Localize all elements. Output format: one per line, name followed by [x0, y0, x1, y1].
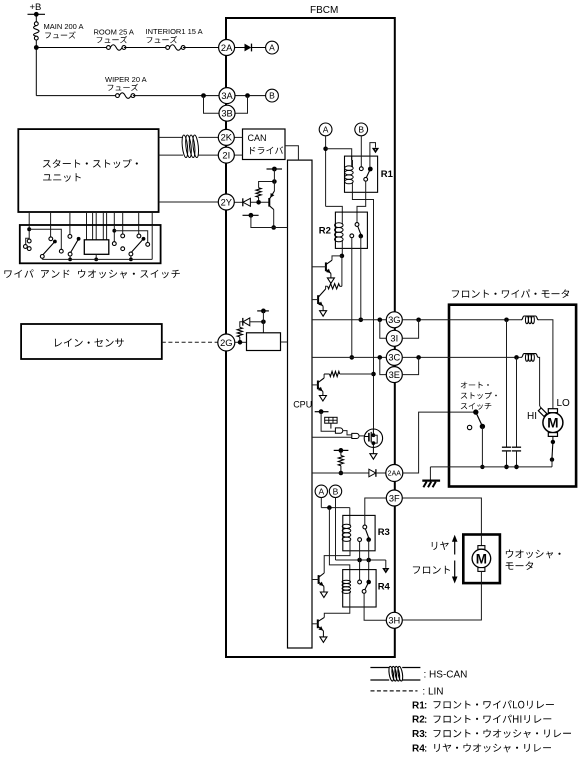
svg-text:: LIN: : LIN: [422, 687, 443, 698]
wire A to R1 coil: [326, 149, 352, 166]
resistor 2AA pullup: [340, 450, 342, 455]
wire 2K to CAN driver: [234, 136, 242, 138]
wire B to R1 contact: [360, 136, 362, 167]
wire 3F to R3 contact: [365, 498, 387, 525]
ground Q6: [320, 637, 327, 643]
svg-text:B: B: [358, 124, 364, 134]
wire unit to 2Y: [159, 201, 219, 203]
LO terminal: [548, 409, 557, 413]
wire 3G-3I outer loop: [402, 320, 418, 339]
node B bottom: [329, 485, 341, 497]
node B mid: [355, 123, 368, 136]
wire R3 coil to driver Q5: [324, 541, 350, 573]
svg-text:3I: 3I: [390, 334, 398, 344]
wire unit to twisted pair top: [159, 136, 183, 138]
switch pole4: [113, 225, 115, 242]
wire R2 coil to drivers: [341, 242, 343, 256]
svg-text:FBCM: FBCM: [310, 5, 338, 16]
connector 3E: [386, 367, 402, 383]
resistor R2 base chain: [341, 256, 343, 286]
wire WIPER fuse to 3A: [133, 95, 219, 97]
wire to ROOM fuse: [36, 47, 109, 49]
oscillator block: [325, 417, 337, 423]
svg-text:A: A: [269, 43, 275, 53]
relay R2 box: [335, 212, 367, 248]
connector 3F: [386, 490, 402, 506]
wire A to R2 coil: [326, 206, 343, 222]
choke coil L1: [521, 316, 538, 320]
svg-text:INTERIOR1 15 A: INTERIOR1 15 A: [146, 27, 203, 36]
wire R1 contact to R2 contact: [357, 181, 366, 223]
svg-text:R2: R2: [319, 226, 331, 237]
ground Q2: [320, 311, 327, 317]
wire 3A to node B: [235, 95, 266, 97]
wire A to R3 coil: [320, 498, 322, 508]
wire 3C into motor: [402, 356, 521, 358]
wire 3A-3B outer loop: [204, 96, 220, 114]
wire CPU to 2AA diode: [312, 472, 369, 474]
2G input network: [235, 341, 247, 343]
legend LIN symbol: [371, 690, 418, 692]
connector 3I: [386, 330, 402, 346]
rear label + arrow: [432, 542, 449, 550]
park switch: [552, 436, 554, 440]
power tick 2Y: [267, 168, 283, 170]
wire 2Y to diode: [234, 201, 243, 203]
wire 3A-3B inner loop: [235, 96, 248, 114]
wire +B down: [35, 14, 37, 21]
wire twisted pair to 2I: [199, 154, 219, 156]
connector 2G: [218, 334, 235, 351]
front label + arrow: [413, 566, 450, 574]
connector 2Y: [218, 194, 234, 210]
node B top: [266, 89, 279, 102]
svg-text:+B: +B: [30, 2, 42, 13]
wire R1 coil down to MOSFET drain line: [352, 184, 373, 429]
wiper motor M: [543, 413, 563, 433]
svg-text:3G: 3G: [388, 315, 400, 325]
fuse MAIN 200A: [34, 22, 38, 26]
resistor 2G pullup: [237, 327, 242, 337]
transistor Q6 R4 driver: [317, 619, 319, 628]
switch contacts pole1: [28, 225, 30, 239]
wire G2 to MOSFET gate: [359, 435, 364, 437]
svg-text:M: M: [547, 416, 558, 431]
svg-text:2A: 2A: [221, 43, 233, 53]
wire B down to contact rail: [335, 498, 337, 561]
front wiper motor box: [449, 305, 576, 487]
wire A down: [325, 136, 327, 207]
fuse ROOM 25A: [107, 46, 111, 50]
connector 2K: [218, 129, 234, 145]
capacitor C2: [516, 357, 518, 447]
svg-text:R3: R3: [412, 729, 425, 740]
connector 3C: [386, 349, 402, 365]
MOSFET Q4: [364, 429, 382, 447]
transistor Q1 R2 driver: [325, 262, 327, 271]
transistor Q 2Y (PNP): [268, 198, 270, 207]
fuse INTERIOR1 15A: [166, 46, 170, 50]
svg-text:R1: R1: [381, 169, 394, 180]
svg-text:HI: HI: [527, 411, 537, 422]
wire CPU to 3C: [312, 356, 386, 358]
arrow out right of R3/R4: [385, 560, 387, 568]
washer motor label: [506, 550, 561, 559]
ground symbol: [429, 467, 431, 480]
svg-text:3E: 3E: [389, 370, 400, 380]
power tick 2Y collector rail: [243, 214, 259, 216]
wires unit to wiper washer switch: [28, 212, 30, 225]
wire ROOM to INTERIOR fuse: [124, 47, 168, 49]
relay R4 box: [343, 570, 376, 607]
wire junction to WIPER fuse: [36, 95, 117, 97]
wire R4 contact to 3H: [364, 593, 386, 620]
wire L1 to LO: [538, 320, 553, 409]
relay R2 contacts: [355, 223, 359, 227]
svg-text:A: A: [323, 124, 329, 134]
connector 2AA: [386, 465, 403, 482]
svg-text:2G: 2G: [220, 338, 232, 348]
ground Q3: [319, 396, 326, 402]
connector 3B: [219, 105, 235, 121]
svg-text:R2: R2: [412, 715, 425, 726]
svg-text:R1: R1: [412, 700, 425, 711]
wire L2 to HI: [538, 357, 542, 409]
power tick logic: [315, 411, 329, 413]
wire R4 coil to driver Q6: [324, 593, 350, 617]
wire 3C-3E inner loop: [380, 357, 387, 374]
transistor Q3 HI driver: [317, 381, 319, 390]
svg-text:3H: 3H: [388, 616, 400, 626]
washer motor M: [480, 535, 482, 546]
ground MOSFET: [370, 454, 377, 460]
connector 2A: [219, 40, 235, 56]
HI terminal: [538, 408, 546, 416]
svg-text:MAIN 200 A: MAIN 200 A: [44, 22, 84, 31]
transistor Q2 R2 driver: [317, 295, 319, 304]
wire 2AA to auto-stop switch: [403, 412, 476, 473]
svg-text:CPU: CPU: [293, 400, 312, 410]
svg-text:2K: 2K: [221, 133, 233, 143]
svg-text:R4: R4: [412, 744, 425, 755]
wire diode to node A: [252, 47, 266, 49]
wiper and washer switch box: [20, 225, 161, 263]
wire contacts to R4 contacts: [359, 560, 361, 580]
wire 3G into motor: [402, 319, 521, 321]
power tick 2AA: [334, 449, 349, 451]
wire CPU to 3G: [312, 319, 386, 321]
wire G1 to G2: [343, 431, 352, 435]
diode 2G (cathode left): [242, 318, 244, 326]
fuse WIPER 20A: [116, 94, 120, 98]
switch pole6: [138, 225, 140, 234]
wire LIN box to CPU: [281, 341, 288, 343]
wire to 2A: [183, 47, 219, 49]
svg-text:B: B: [333, 486, 339, 496]
power tick 2G: [257, 310, 269, 312]
relay R3 contacts: [363, 525, 367, 529]
node A mid: [319, 123, 332, 136]
choke coil L2: [521, 354, 538, 358]
LIN dashed wire to 2G: [162, 341, 218, 343]
ground Q5: [320, 592, 327, 598]
wire washer motor to 3H: [402, 583, 481, 620]
svg-text:CAN: CAN: [248, 133, 267, 143]
motor ground rail: [430, 466, 552, 468]
connector 3A: [219, 88, 235, 104]
resistor Q3 collector to R1 line: [324, 373, 329, 375]
wire 3G-3I inner loop: [380, 320, 387, 339]
relay R4 coil: [349, 580, 351, 582]
wire CPU to G2: [312, 436, 352, 438]
rain sensor box: [21, 324, 162, 359]
connector 3H: [386, 612, 402, 628]
wire A to R4 coil: [329, 508, 349, 581]
svg-text:3A: 3A: [221, 91, 233, 101]
svg-text:2AA: 2AA: [388, 471, 402, 478]
relay R3 box: [343, 515, 375, 550]
svg-text:3F: 3F: [389, 493, 400, 503]
capacitor C1: [506, 320, 508, 447]
svg-text:2Y: 2Y: [221, 197, 232, 207]
node A bottom: [315, 485, 327, 497]
switch label: [4, 269, 180, 278]
motor bottom terminal: [548, 433, 557, 437]
svg-text:3B: 3B: [221, 109, 232, 119]
logic gate G2: [352, 433, 359, 438]
svg-text:2I: 2I: [222, 150, 230, 160]
svg-text:: HS-CAN: : HS-CAN: [424, 670, 468, 681]
wire R2 arm to 3G row: [360, 236, 362, 320]
wire MAIN fuse to junction: [35, 40, 37, 96]
diode 2AA (open, cathode right): [369, 469, 376, 477]
switch pole5: [122, 225, 124, 234]
relay R1 box: [345, 156, 378, 192]
svg-text:LO: LO: [557, 398, 571, 409]
switch common rail: [42, 258, 152, 260]
wire 3C-3E outer loop: [402, 357, 418, 374]
wire 3F to washer motor: [402, 498, 481, 535]
diode 2Y (cathode left): [242, 198, 244, 206]
start-stop unit box: [18, 129, 158, 212]
switch pole3: [69, 225, 71, 235]
svg-text:M: M: [476, 552, 487, 567]
node A top: [266, 41, 279, 54]
R1 hook arrow out: [370, 143, 376, 167]
wire 2I to CAN driver: [234, 154, 242, 156]
logic gate G1: [335, 428, 342, 433]
front wiper motor label: [452, 289, 569, 298]
svg-text:WIPER 20 A: WIPER 20 A: [105, 75, 147, 84]
ground Q1: [327, 278, 334, 284]
svg-text:A: A: [318, 486, 324, 496]
switch pole2: [50, 225, 52, 237]
svg-text:R3: R3: [378, 527, 390, 538]
auto-stop switch: [473, 409, 478, 414]
resistor 2Y: [258, 197, 260, 202]
wire twisted pair to 2K: [199, 136, 219, 138]
HS-CAN twisted pair symbol: [181, 135, 189, 158]
LIN transceiver box: [247, 333, 281, 351]
washer motor box: [463, 535, 500, 584]
svg-text:3C: 3C: [388, 353, 400, 363]
wire R2 contact to 3C row: [351, 238, 353, 358]
svg-text:B: B: [269, 91, 275, 101]
svg-text:ROOM 25 A: ROOM 25 A: [94, 28, 134, 37]
relay R3 coil: [349, 524, 351, 526]
CAN driver box: [243, 129, 286, 160]
connector 2I: [218, 147, 234, 163]
legend HS-CAN symbol: [370, 667, 389, 669]
connector 3G: [386, 312, 402, 328]
CPU U-CPU box: [288, 160, 313, 648]
relay R1 contacts: [359, 167, 363, 171]
diode D after 2A: [235, 47, 245, 49]
relay R1 coil: [351, 166, 353, 168]
wire unit to twisted pair bottom: [159, 154, 183, 156]
transistor Q5 R3 driver: [318, 575, 320, 584]
svg-text:R4: R4: [378, 582, 391, 593]
wire CAN driver to CPU: [285, 146, 298, 160]
FBCM module box: [226, 18, 395, 657]
auto-stop switch label: [461, 382, 489, 389]
washer switch block: [84, 240, 109, 255]
relay R2 coil: [341, 223, 343, 225]
relay R4 contacts: [358, 580, 362, 584]
